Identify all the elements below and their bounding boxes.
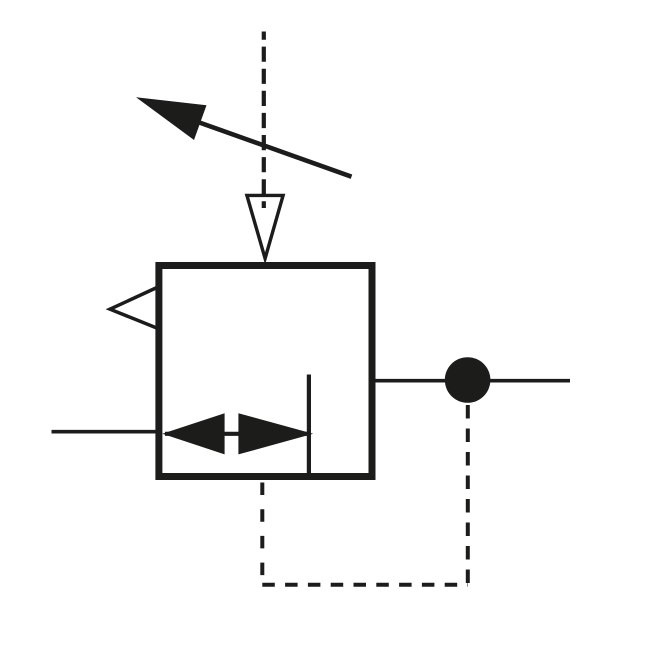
flow arrow left head — [162, 413, 224, 454]
wire: dashed pilot feedback right vertical — [466, 405, 470, 585]
adjustment arrow shaft — [198, 122, 352, 177]
vent triangle — [110, 287, 158, 329]
junction node (filled circle) — [445, 357, 491, 403]
adjustment arrow head — [136, 97, 207, 140]
wire: inlet line left — [52, 430, 159, 434]
flow arrow connecting line — [165, 432, 311, 436]
wire: dashed pilot feedback bottom horizontal — [262, 583, 468, 587]
regulator body box — [159, 266, 372, 477]
throttle vertical line — [307, 375, 311, 479]
spring adjustment triangle — [247, 195, 283, 258]
flow arrow right head — [238, 413, 313, 454]
wire: pilot dashed line top — [262, 32, 266, 209]
wire: outlet line right — [372, 379, 570, 383]
wire: dashed pilot feedback left vertical — [260, 483, 264, 586]
